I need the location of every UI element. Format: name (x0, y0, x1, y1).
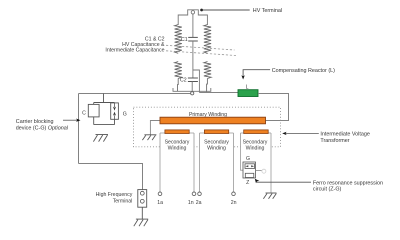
svg-text:G: G (246, 156, 250, 162)
svg-text:Intermediate Voltage: Intermediate Voltage (320, 131, 369, 137)
svg-text:Winding: Winding (246, 146, 265, 152)
svg-text:C2: C2 (180, 78, 187, 84)
svg-text:Z: Z (246, 180, 249, 186)
svg-text:Intermediate Capacitance: Intermediate Capacitance (105, 48, 164, 54)
svg-text:C1: C1 (181, 37, 188, 43)
svg-text:HV Terminal: HV Terminal (253, 8, 282, 14)
svg-text:L: L (246, 85, 249, 91)
svg-text:G: G (123, 111, 127, 117)
svg-text:2n: 2n (231, 200, 237, 206)
svg-text:High Frequency: High Frequency (96, 192, 133, 198)
svg-text:circuit (Z-G): circuit (Z-G) (313, 187, 342, 193)
svg-text:Carrier blocking: Carrier blocking (16, 119, 54, 125)
svg-text:Ferro resonance suppression: Ferro resonance suppression (313, 180, 383, 186)
svg-text:2a: 2a (196, 200, 202, 206)
svg-text:Compensating Reactor (L): Compensating Reactor (L) (272, 68, 335, 74)
svg-text:Winding: Winding (168, 146, 187, 152)
svg-text:device (C-G) Optional: device (C-G) Optional (16, 126, 69, 132)
svg-text:C: C (82, 111, 86, 117)
svg-text:Transformer: Transformer (320, 138, 349, 144)
svg-text:1n: 1n (188, 200, 194, 206)
svg-text:Winding: Winding (207, 146, 226, 152)
svg-text:1a: 1a (157, 200, 163, 206)
svg-text:Terminal: Terminal (113, 199, 133, 205)
